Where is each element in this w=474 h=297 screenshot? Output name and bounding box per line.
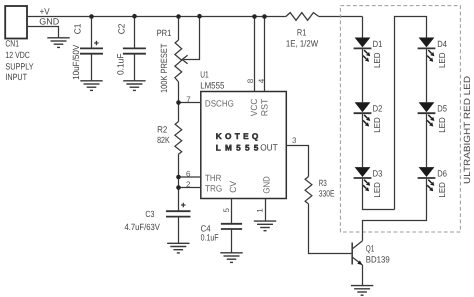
svg-text:2: 2 <box>186 180 191 189</box>
ground (C4) <box>220 253 242 263</box>
wire D5-D6 <box>426 113 428 167</box>
svg-text:1E, 1/2W: 1E, 1/2W <box>286 38 319 48</box>
junction dots <box>89 14 267 190</box>
svg-text:SUPPLY: SUPPLY <box>5 61 33 71</box>
node pin4/rail <box>262 14 267 19</box>
wire pin 6 THR <box>179 176 201 178</box>
svg-text:LM555: LM555 <box>200 80 224 90</box>
IC U1 LM555 <box>200 70 286 199</box>
wire D1-D2 <box>362 48 364 102</box>
svg-text:100K PRESET: 100K PRESET <box>159 43 169 93</box>
svg-text:C1: C1 <box>73 24 83 35</box>
wire +V rail from R1 to LED box <box>319 16 363 18</box>
svg-text:C3: C3 <box>145 209 154 219</box>
svg-text:10uF/50V: 10uF/50V <box>71 45 81 80</box>
node wiper/rail <box>197 14 202 19</box>
svg-text:D2: D2 <box>373 104 383 114</box>
wire pin 8 VCC <box>254 17 256 92</box>
capacitor C2 <box>115 17 145 81</box>
ground (Q1) <box>351 286 373 296</box>
wire D4-D5 <box>426 48 428 102</box>
svg-text:R2: R2 <box>157 124 167 134</box>
dashed LED box <box>340 6 460 232</box>
LED D1 <box>354 38 383 69</box>
resistor R2 <box>157 102 182 177</box>
svg-text:+V: +V <box>40 7 50 17</box>
svg-text:INPUT: INPUT <box>5 72 27 82</box>
svg-text:12 VDC: 12 VDC <box>5 50 30 60</box>
svg-text:0.1uF: 0.1uF <box>115 53 125 75</box>
svg-text:CV: CV <box>228 181 238 193</box>
wire LED column 1 top <box>362 17 364 38</box>
wire pin 5 CV <box>231 199 233 224</box>
svg-text:LED: LED <box>372 182 382 198</box>
capacitor C4 <box>201 224 243 253</box>
svg-text:LED: LED <box>437 53 447 69</box>
wire THR-TRG-C3 <box>178 177 180 211</box>
wire D2-D3 <box>362 113 364 167</box>
LED D6 <box>418 167 447 198</box>
svg-text:LED: LED <box>437 117 447 133</box>
svg-text:1: 1 <box>256 208 265 213</box>
wire pin 4 RST <box>264 17 266 92</box>
svg-text:6: 6 <box>186 169 191 178</box>
wire riser up to column 2 <box>395 17 427 210</box>
svg-text:330E: 330E <box>319 189 335 199</box>
svg-text:4: 4 <box>257 78 266 83</box>
svg-text:7: 7 <box>186 95 191 104</box>
capacitor C3 <box>125 203 191 243</box>
node PR1/rail <box>176 14 181 19</box>
node C2/rail <box>132 14 137 19</box>
svg-text:D4: D4 <box>437 39 447 49</box>
LED D3 <box>354 167 383 198</box>
connector CN1 <box>5 6 33 82</box>
wire pin 1 GND <box>265 199 267 221</box>
ground (C3) <box>167 243 189 253</box>
svg-text:R1: R1 <box>297 28 306 38</box>
node pin6 <box>176 175 181 180</box>
node pin7 <box>176 100 181 105</box>
wire pin 7 DSCHG <box>179 102 201 104</box>
resistor R1 <box>286 13 319 49</box>
wire D6 to collector <box>363 178 427 241</box>
svg-text:DSCHG: DSCHG <box>205 99 234 109</box>
svg-text:LED: LED <box>437 182 447 198</box>
svg-text:TRG: TRG <box>205 184 222 194</box>
node pin2 <box>176 185 181 190</box>
ground (CN1) <box>47 38 69 48</box>
transistor Q1 <box>351 241 389 286</box>
wire D3 to riser <box>363 178 395 210</box>
svg-text:8: 8 <box>246 78 255 83</box>
resistor R3 <box>305 177 351 254</box>
svg-text:CN1: CN1 <box>5 39 19 49</box>
svg-text:D1: D1 <box>373 39 383 49</box>
svg-text:OUT: OUT <box>260 142 278 152</box>
svg-text:R3: R3 <box>319 178 327 188</box>
wire pin 3 OUT <box>286 146 308 177</box>
svg-text:LED: LED <box>372 117 382 133</box>
svg-text:D6: D6 <box>437 168 447 178</box>
svg-text:3: 3 <box>292 136 297 145</box>
wire +V rail from CN1 to R1 <box>27 16 286 18</box>
node C1/rail <box>89 14 94 19</box>
svg-text:5: 5 <box>222 208 231 213</box>
svg-text:LED: LED <box>372 53 382 69</box>
svg-text:82K: 82K <box>157 135 170 145</box>
svg-text:Q1: Q1 <box>366 244 375 254</box>
svg-text:C2: C2 <box>116 24 126 35</box>
svg-text:U1: U1 <box>200 70 209 80</box>
svg-text:D5: D5 <box>437 104 447 114</box>
wire pin 2 TRG <box>179 187 201 189</box>
ground (C2) <box>123 81 145 91</box>
LED D2 <box>354 102 383 133</box>
svg-text:VCC: VCC <box>249 98 259 116</box>
ground (C1) <box>80 81 102 91</box>
preset PR1 <box>157 17 200 103</box>
svg-text:D3: D3 <box>373 168 383 178</box>
capacitor C1 <box>71 17 103 81</box>
svg-text:0.1uF: 0.1uF <box>201 233 219 243</box>
LED D4 <box>418 38 447 69</box>
svg-text:4.7uF/63V: 4.7uF/63V <box>125 222 160 232</box>
svg-text:GND: GND <box>262 176 272 194</box>
node pin8/rail <box>252 14 257 19</box>
svg-text:THR: THR <box>205 173 222 183</box>
svg-text:BD139: BD139 <box>366 254 390 264</box>
wire GND from CN1 <box>27 27 59 38</box>
svg-text:RST: RST <box>260 98 270 116</box>
LED D5 <box>418 102 447 133</box>
svg-text:GND: GND <box>39 17 60 27</box>
svg-text:PR1: PR1 <box>157 28 172 38</box>
svg-text:ULTRABIGHT RED LED: ULTRABIGHT RED LED <box>462 75 472 184</box>
ground (IC pin1) <box>254 221 276 231</box>
